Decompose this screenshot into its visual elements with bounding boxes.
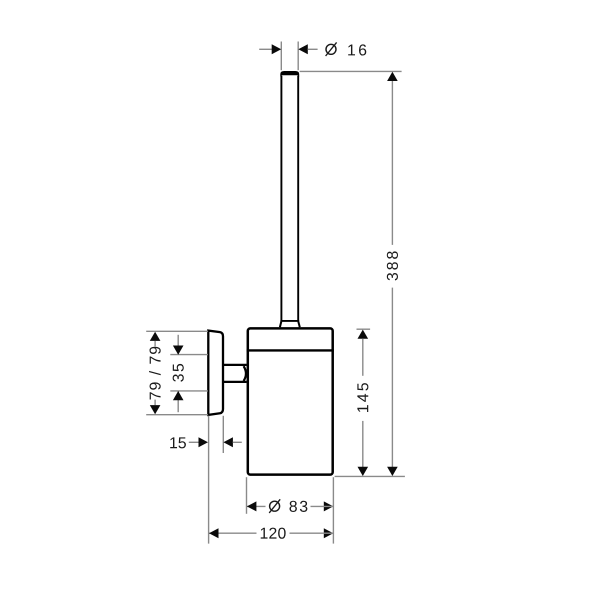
Ø16 dimension line right segment <box>308 48 318 50</box>
Ø83 left arrow <box>247 501 257 511</box>
Ø16 left arrow <box>272 44 282 54</box>
Ø83 dimension line left segment <box>247 505 266 507</box>
145 dimension line upper segment <box>362 339 364 376</box>
15 label <box>170 437 186 448</box>
15 left-pointing arrow <box>223 437 233 447</box>
15 left extension line (shared with 120) <box>208 416 210 544</box>
brush handle right edge <box>297 76 299 321</box>
35 label <box>173 364 184 382</box>
handle joint line <box>280 320 299 322</box>
cup rim divider line <box>247 349 334 351</box>
Ø16 right arrow <box>298 44 308 54</box>
388 label <box>387 251 398 280</box>
brush handle left edge <box>280 76 282 321</box>
388 bottom extension line <box>335 475 405 477</box>
cup outline <box>248 328 333 474</box>
Ø16 extension line left <box>280 42 282 71</box>
79/79 down arrow <box>150 405 161 414</box>
Ø16 label <box>326 42 367 56</box>
Ø16 extension line right <box>297 42 299 71</box>
15 right-pointing arrow <box>199 437 209 447</box>
Ø16 dimension line left segment <box>259 48 272 50</box>
388 dimension line upper segment <box>391 81 393 245</box>
145 up arrow <box>358 330 369 339</box>
388 top extension line <box>300 70 402 72</box>
15 dimension line left segment <box>189 441 199 443</box>
35 top extension line <box>170 354 208 356</box>
79/79 dimension line upper segment <box>154 341 156 346</box>
35 dimension line upper segment <box>177 335 179 354</box>
120 dimension line right segment <box>290 532 334 534</box>
120 left arrow <box>209 528 219 538</box>
Ø83 label <box>269 499 307 513</box>
mounting arm bottom edge <box>223 381 247 383</box>
15 right extension line <box>222 416 224 453</box>
Ø83 dimension line right segment <box>311 505 334 507</box>
388 dimension line lower segment <box>391 288 393 467</box>
Ø83 left extension line <box>246 477 248 514</box>
Ø83 right extension line (shared with 120) <box>332 477 334 543</box>
handle flare right <box>298 322 300 328</box>
35 dimension line lower segment <box>177 391 179 412</box>
120 right arrow <box>324 528 334 538</box>
wall plate <box>208 331 223 415</box>
Ø83 right arrow <box>324 501 334 511</box>
388 down arrow <box>387 467 398 476</box>
15 dimension line right segment <box>233 441 242 443</box>
79/79 dimension line lower segment <box>154 400 156 406</box>
brush handle cap <box>280 71 299 77</box>
mounting arm top edge <box>223 364 247 366</box>
145 dimension line lower segment <box>362 421 364 467</box>
35 bottom extension line <box>170 390 208 392</box>
145 down arrow <box>358 467 369 476</box>
79/79 bottom extension line <box>146 414 208 416</box>
79/79 top extension line <box>146 330 208 332</box>
120 dimension line left segment <box>209 532 257 534</box>
mounting arm collar <box>244 366 246 381</box>
handle flare left <box>280 322 281 328</box>
145 label <box>357 383 368 412</box>
79/79 up arrow <box>150 332 161 341</box>
120 label <box>261 528 286 539</box>
145 top extension line <box>357 328 371 330</box>
35 down arrow <box>173 346 184 355</box>
35 up arrow <box>173 391 184 400</box>
79/79 label <box>149 347 161 400</box>
388 up arrow <box>387 72 398 81</box>
